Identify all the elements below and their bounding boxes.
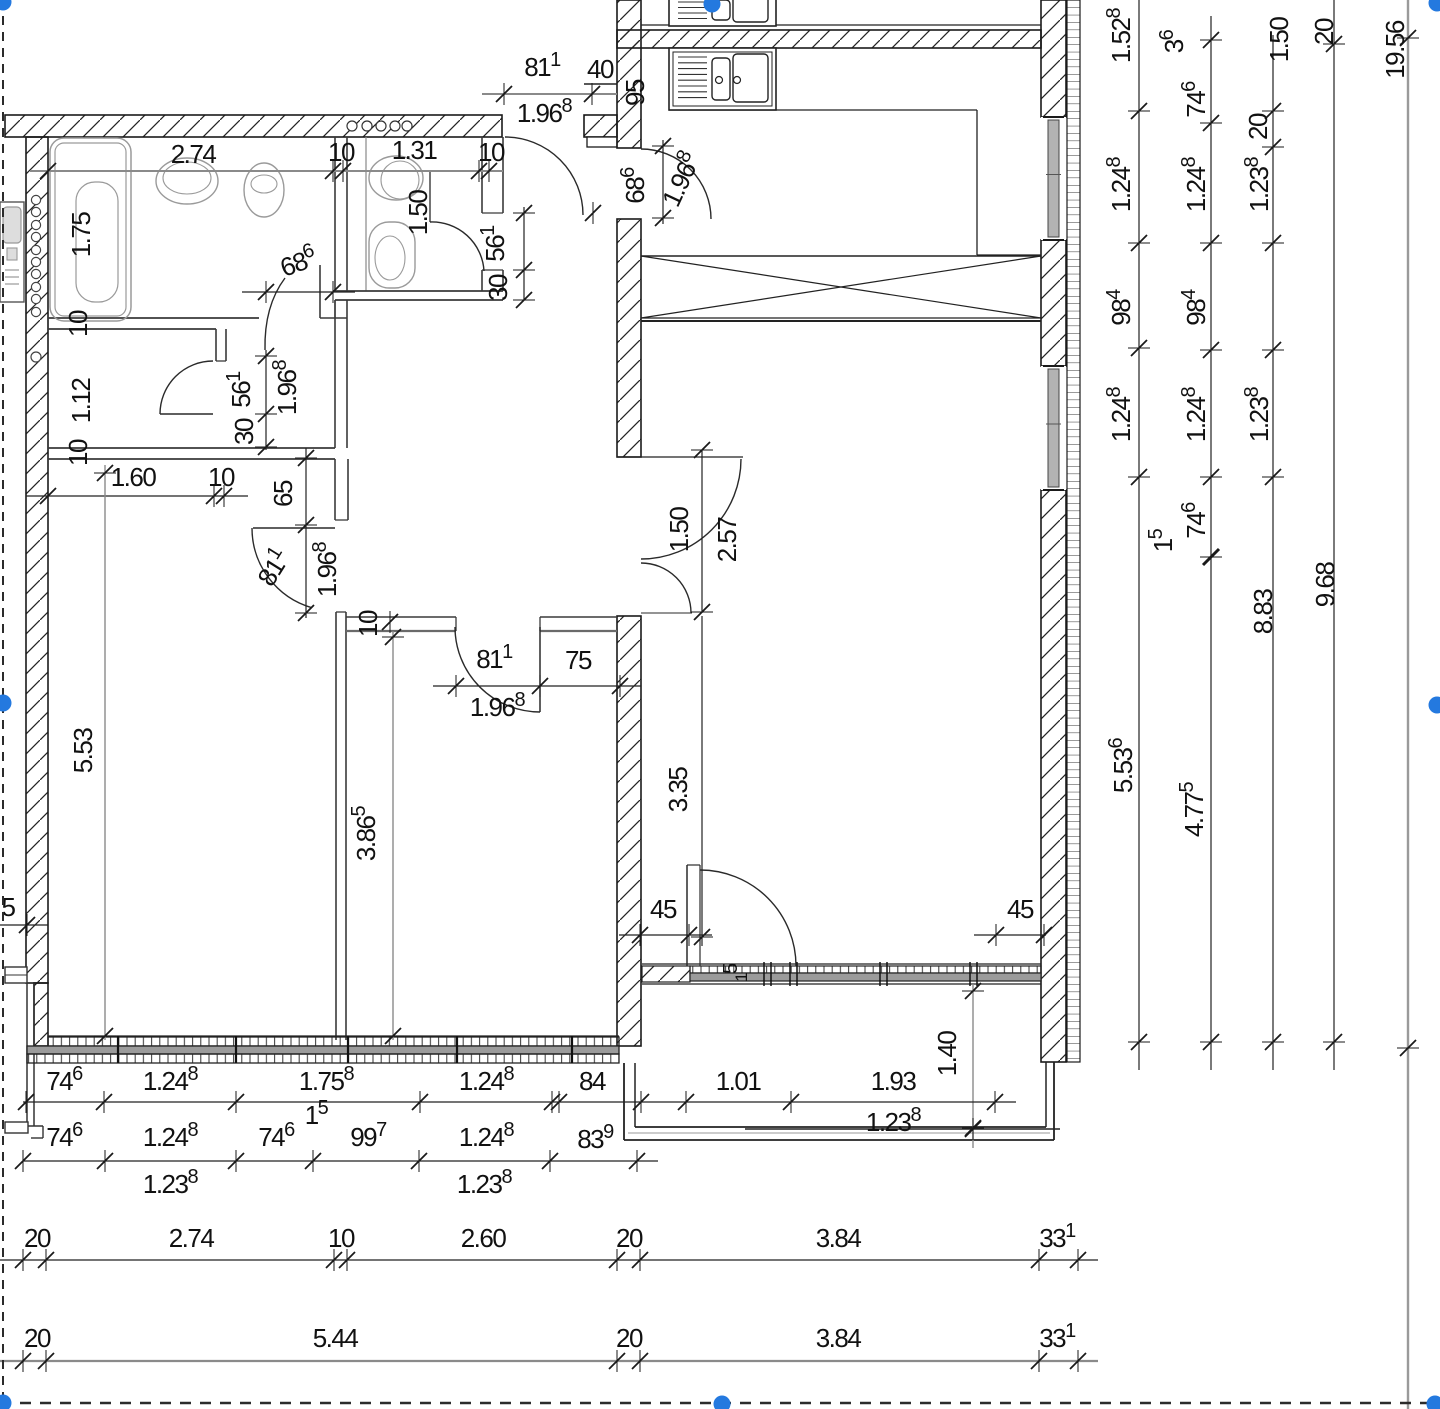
svg-text:1.40: 1.40 [932,1031,962,1077]
dim line WC door x524 [523,207,525,300]
wall: corridor bottom [48,447,335,449]
balcony door threshold left wall [5,967,27,983]
svg-text:20: 20 [616,1223,643,1253]
svg-text:19.56: 19.56 [1380,20,1410,79]
dim line bathroom chain y171 [30,170,503,172]
svg-text:2.57: 2.57 [712,517,742,563]
svg-text:45: 45 [650,894,677,924]
kitchen sink (flat) [669,48,776,110]
wall: hall bottom right part [540,616,617,618]
dim chain row2 y1161 [23,1160,658,1162]
dim line 65/1.968 x306 [305,448,307,618]
dim line 45 far-left y925 [0,924,48,926]
kitchen counter line [669,109,977,111]
insulation strip right wall [1067,0,1080,1062]
dim line 3.35 x702 [701,616,703,946]
wall: central vertical upper [617,0,641,148]
svg-text:1.50: 1.50 [403,190,433,236]
svg-text:1.12: 1.12 [66,378,96,424]
door: bedroom 81 [539,627,541,712]
tick entry arc end [585,202,601,224]
wall: central vertical lower [617,616,641,1046]
dim line kitchen door x663 [662,140,664,224]
dim line 1.40 x973 [972,984,974,1148]
svg-text:45: 45 [1007,894,1034,924]
dim chain row5 y1361 [0,1360,1098,1362]
wall: bathroom bottom [48,317,259,319]
wall: bathroom bottom jog [215,329,217,361]
svg-text:84: 84 [579,1066,606,1096]
svg-text:95: 95 [620,79,650,106]
door: hall-living 81 (upper) [252,528,312,608]
toilet [369,156,423,200]
neighbour kitchen counter left edge [0,202,24,302]
svg-text:30: 30 [229,418,259,445]
svg-text:1.75: 1.75 [66,212,96,258]
svg-text:1.93: 1.93 [871,1066,917,1096]
svg-text:8.83: 8.83 [1248,589,1278,635]
door: WC 56 [430,222,484,271]
dim line 3.865 x393 [392,631,394,1040]
svg-text:40: 40 [587,54,614,84]
wall: bedroom left [335,612,337,1040]
dim 1.238 balcony underline [745,1128,1060,1130]
svg-text:65: 65 [268,480,298,507]
door: entry 81 top (into hall) [505,137,583,215]
svg-text:20: 20 [616,1323,643,1353]
wall: hall bottom left part [346,616,456,618]
door: balcony 1.0 [686,865,688,966]
svg-text:2.60: 2.60 [461,1223,507,1253]
svg-text:5.44: 5.44 [313,1323,359,1353]
wall: left exterior [26,137,48,983]
radiator circles [31,195,40,204]
svg-text:10: 10 [63,310,93,337]
svg-text:9.68: 9.68 [1310,562,1340,608]
X-box (shaft) [641,255,1041,257]
door: bathroom 68.6 [265,278,285,350]
reference line E x1408 [1407,0,1409,1409]
wall: right exterior mid [1041,240,1066,366]
dim line 68.6 bathroom y292 [242,291,355,293]
vent circles on top wall [347,121,357,131]
svg-text:10: 10 [478,137,505,167]
door: corridor 56 leaf [160,413,213,415]
wall: top exterior band [5,115,502,137]
dim line corridor door x266 [265,350,267,450]
wall: WC inner face line [365,137,367,291]
wall: right exterior upper [1041,0,1066,117]
svg-text:20: 20 [24,1223,51,1253]
svg-text:10: 10 [328,1223,355,1253]
dim column B x1211 [1210,16,1212,1070]
door: WC 56 leaf [429,171,431,222]
door: hall 1.50 double leaf (to living) [641,459,741,559]
svg-text:1.31: 1.31 [392,135,438,165]
dim column D x1334 [1333,0,1335,1070]
svg-text:20: 20 [24,1323,51,1353]
facade band bottom-left (window front) [48,1035,619,1037]
svg-text:2.74: 2.74 [171,139,217,169]
wall: central vertical mid [617,219,641,457]
svg-text:75: 75 [565,645,592,675]
wall: bathroom SE step [319,265,321,318]
dim line 45 right y935 [974,934,1046,936]
dim chain row4 y1260 [0,1259,1098,1261]
wall: WC right lower stub [481,270,483,291]
wall: left exterior narrow lower [34,983,48,1046]
selection dashed border bottom [0,1402,1440,1405]
washbasin 2 [244,163,284,217]
svg-text:10: 10 [328,137,355,167]
svg-text:3.84: 3.84 [816,1323,862,1353]
facade band living room (window front) [642,963,1041,965]
svg-text:1.50: 1.50 [1264,17,1294,63]
dim line entry 81/40 y94 [482,93,617,95]
wall: right exterior lower [1041,490,1066,1062]
door: kitchen 68.6 [641,149,711,219]
svg-text:2.74: 2.74 [169,1223,215,1253]
window W2 right wall [1041,366,1066,490]
wall: stub below corridor wall [334,459,336,520]
dim line 1.50 hall x702 [701,450,703,613]
wall: party wall horizontal band [617,30,1041,48]
wall: niche block right of entry door [584,115,617,137]
wall: left lower jamb lines [26,983,28,1126]
wall: below WC vertical [334,300,336,448]
dim line 5.53 x105 [104,465,106,1040]
hall top line [617,456,743,458]
selection dashed border left [2,0,4,1409]
svg-text:1.01: 1.01 [716,1066,762,1096]
kitchen sink (neighbour flat, top) [669,0,776,26]
wall: WC bottom [335,290,503,292]
svg-text:10: 10 [63,439,93,466]
wall: bottom-left corner step [5,1122,28,1133]
dim line 1.60 y496 [26,495,248,497]
window W1 right wall [1041,117,1066,240]
washbasin 1 [156,158,218,204]
bathtub [50,138,131,321]
wall: WC right upper [481,137,483,213]
svg-text:20: 20 [1309,18,1339,45]
svg-text:5.53: 5.53 [68,728,98,774]
tick hall bottom wall 10 [382,611,398,633]
svg-text:10: 10 [208,462,235,492]
svg-text:3.35: 3.35 [663,767,693,813]
svg-text:3.84: 3.84 [816,1223,862,1253]
dim line bedroom door y686 [433,685,641,687]
kitchen counter front line [641,24,1041,26]
balcony slab [623,1063,625,1140]
svg-text:30: 30 [483,274,513,301]
wall: niche block lower lip [587,137,617,147]
selection handles [0,0,12,11]
svg-text:1.60: 1.60 [111,462,157,492]
svg-text:20: 20 [1243,113,1273,140]
dim column C x1273 [1272,35,1274,1070]
svg-text:10: 10 [353,610,383,637]
wall: WC left [334,137,336,291]
dim line 45 left y935 [619,934,712,936]
dim chain row1 y1102 [23,1101,1016,1103]
bidet [369,222,415,288]
dim column A x1139 [1138,0,1140,1070]
svg-text:1.50: 1.50 [664,507,694,553]
